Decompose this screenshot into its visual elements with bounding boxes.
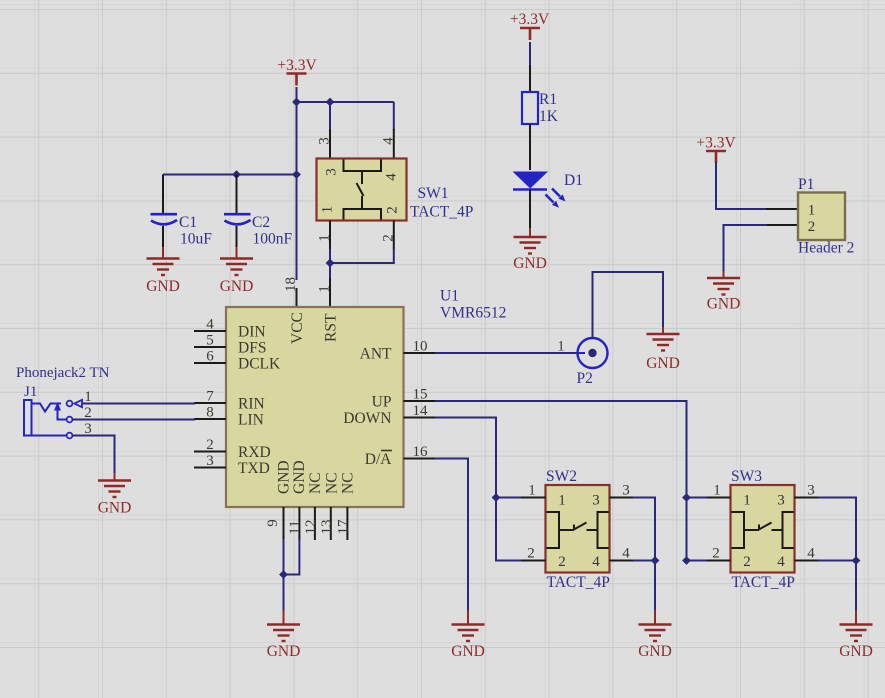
svg-text:7: 7 xyxy=(206,389,214,405)
pin U1.15 UP xyxy=(404,400,437,402)
svg-text:13: 13 xyxy=(319,520,335,535)
svg-text:TACT_4P: TACT_4P xyxy=(410,204,473,221)
svg-text:RST: RST xyxy=(323,313,340,342)
svg-text:10: 10 xyxy=(413,339,428,355)
svg-text:SW2: SW2 xyxy=(546,468,577,485)
junction at SW3 pin4 xyxy=(852,556,861,565)
svg-text:GND: GND xyxy=(98,500,132,517)
svg-text:GND: GND xyxy=(220,278,254,295)
pin U1.4 DIN xyxy=(194,330,226,332)
pin SW3.4 xyxy=(795,560,820,562)
wire GND stub (J1) xyxy=(114,473,116,481)
svg-text:6: 6 xyxy=(206,349,214,365)
svg-text:3: 3 xyxy=(622,483,630,499)
wire capacitor branch xyxy=(163,174,297,176)
svg-text:1: 1 xyxy=(743,493,751,509)
pin R1 top xyxy=(529,65,531,92)
switch SW2 TACT_4P xyxy=(546,468,610,591)
wire U1 GND pin11 jog xyxy=(284,539,300,575)
wire GND stub (D/A) xyxy=(467,610,469,625)
pin R1 bottom / D1 anode xyxy=(529,124,531,170)
svg-text:C2: C2 xyxy=(252,214,270,231)
svg-text:1K: 1K xyxy=(539,108,559,125)
pin U1.2 RXD xyxy=(194,451,226,453)
svg-text:4: 4 xyxy=(592,554,600,570)
capacitor C2 xyxy=(224,175,293,259)
svg-text:GND: GND xyxy=(707,296,741,313)
wire +3.3V stub to node xyxy=(296,87,298,102)
connector J1 Phonejack2 TN xyxy=(16,365,110,438)
pin U1.13 NC xyxy=(330,507,332,540)
svg-text:3: 3 xyxy=(807,483,815,499)
svg-text:NC: NC xyxy=(323,472,340,494)
svg-text:15: 15 xyxy=(413,387,428,403)
wire VCC vertical to U1 xyxy=(296,102,298,280)
wire P2 shield to ground xyxy=(593,272,664,338)
ground (SW2) xyxy=(638,625,672,661)
svg-text:DCLK: DCLK xyxy=(238,356,281,373)
junction at +3.3V node xyxy=(292,98,301,107)
svg-text:P2: P2 xyxy=(577,370,593,387)
svg-text:GND: GND xyxy=(646,355,680,372)
pin SW1.1 xyxy=(329,221,331,251)
svg-text:1: 1 xyxy=(558,493,566,509)
svg-text:VMR6512: VMR6512 xyxy=(440,305,506,322)
svg-text:Header 2: Header 2 xyxy=(798,240,854,257)
svg-text:3: 3 xyxy=(324,168,340,176)
ground (P2) xyxy=(646,334,680,372)
svg-text:4: 4 xyxy=(384,173,400,181)
svg-text:2: 2 xyxy=(384,206,400,214)
wire RST drop xyxy=(329,263,331,280)
svg-text:TXD: TXD xyxy=(238,460,270,477)
pin P1.2 xyxy=(766,224,798,226)
svg-text:GND: GND xyxy=(146,278,180,295)
pin SW3.3 xyxy=(795,497,820,499)
pin U1.18 VCC xyxy=(296,288,298,307)
power +3.3V (R1 branch) xyxy=(510,11,550,40)
pin U1.17 NC xyxy=(346,507,348,540)
junction at SW1 pin1 / RST xyxy=(326,259,335,268)
ground (SW3) xyxy=(839,625,873,661)
pin U1.3 TXD xyxy=(194,467,226,469)
svg-text:1: 1 xyxy=(320,206,336,214)
pin U1.11 GND xyxy=(298,507,300,540)
switch SW1 TACT_4P xyxy=(317,159,474,221)
svg-text:3: 3 xyxy=(592,493,600,509)
svg-text:2: 2 xyxy=(743,554,751,570)
pin U1.14 DOWN xyxy=(404,417,437,419)
wire SW1 pin4 drop xyxy=(393,102,395,130)
svg-text:RXD: RXD xyxy=(238,444,271,461)
svg-text:3: 3 xyxy=(777,493,785,509)
ground (D/A) xyxy=(451,625,485,661)
svg-text:1: 1 xyxy=(557,339,565,355)
svg-text:SW1: SW1 xyxy=(418,185,449,202)
svg-text:Phonejack2 TN: Phonejack2 TN xyxy=(16,365,110,381)
svg-text:9: 9 xyxy=(265,519,281,527)
svg-text:GND: GND xyxy=(451,643,485,660)
svg-text:SW3: SW3 xyxy=(731,468,762,485)
pin SW2.2 xyxy=(521,560,546,562)
svg-text:NC: NC xyxy=(339,472,356,494)
wire SW3 pins 3-4 to ground xyxy=(818,498,856,611)
wire +3.3V to R1 xyxy=(529,42,531,66)
svg-text:GND: GND xyxy=(513,255,547,272)
pin U1.10 ANT xyxy=(404,352,437,354)
capacitor C1 xyxy=(151,175,213,259)
wire D/A to ground xyxy=(435,459,468,611)
wire P1.2 to ground xyxy=(724,225,768,271)
pin U1.6 DCLK xyxy=(194,362,226,364)
pin SW2.3 xyxy=(610,497,635,499)
svg-text:C1: C1 xyxy=(179,214,197,231)
wire SW2 pin4 branch xyxy=(633,560,655,562)
junction at SW3 pin1 xyxy=(682,493,691,502)
svg-text:16: 16 xyxy=(413,444,429,460)
svg-text:1: 1 xyxy=(808,203,816,219)
svg-text:2: 2 xyxy=(527,546,535,562)
svg-text:12: 12 xyxy=(303,520,319,535)
wire SW3 pin4 branch xyxy=(818,560,856,562)
svg-text:UP: UP xyxy=(372,394,392,411)
pin U1.12 NC xyxy=(314,507,316,540)
ground (C2) xyxy=(220,259,254,296)
svg-text:2: 2 xyxy=(380,234,396,242)
pin SW1.3 xyxy=(329,129,331,159)
svg-text:100nF: 100nF xyxy=(253,231,293,248)
wire GND stub (P2) xyxy=(662,327,664,334)
svg-text:GND: GND xyxy=(267,643,301,660)
svg-text:2: 2 xyxy=(808,219,816,235)
svg-text:RIN: RIN xyxy=(238,396,265,413)
svg-text:8: 8 xyxy=(206,405,214,421)
wire GND stub (U1) xyxy=(283,610,285,625)
svg-text:11: 11 xyxy=(287,520,303,534)
wire J1.1 to RIN xyxy=(83,403,196,405)
pin SW3.1 xyxy=(706,497,731,499)
svg-text:1: 1 xyxy=(528,483,536,499)
wire U1 GND pin9 down xyxy=(283,539,285,610)
wire GND stub (P1) xyxy=(723,271,725,278)
wire J1.2 to LIN xyxy=(73,419,196,421)
svg-text:+3.3V: +3.3V xyxy=(277,57,317,74)
svg-text:18: 18 xyxy=(283,277,299,292)
pin U1.5 DFS xyxy=(194,346,226,348)
junction at C2 xyxy=(232,170,241,179)
svg-text:TACT_4P: TACT_4P xyxy=(732,574,795,591)
svg-text:+3.3V: +3.3V xyxy=(510,11,550,28)
svg-text:GND: GND xyxy=(839,643,873,660)
svg-text:ANT: ANT xyxy=(360,346,392,363)
svg-text:DIN: DIN xyxy=(238,324,266,341)
svg-text:R1: R1 xyxy=(539,91,557,108)
wire ANT to P2 xyxy=(435,352,578,354)
svg-text:GND: GND xyxy=(291,460,308,494)
pin U1.8 LIN xyxy=(194,418,226,420)
switch SW3 TACT_4P xyxy=(731,468,795,591)
svg-text:1: 1 xyxy=(317,234,333,242)
svg-text:3: 3 xyxy=(206,453,214,469)
pin U1.7 RIN xyxy=(194,402,226,404)
svg-text:2: 2 xyxy=(558,554,566,570)
svg-text:DFS: DFS xyxy=(238,340,266,357)
IC U1 VMR6512 xyxy=(226,288,506,508)
ground (D1) xyxy=(513,237,547,272)
wire J1.3 to ground xyxy=(73,436,115,474)
junction at capacitor branch xyxy=(292,170,301,179)
svg-text:TACT_4P: TACT_4P xyxy=(547,574,610,591)
svg-text:U1: U1 xyxy=(440,288,459,305)
pin SW3.2 xyxy=(706,560,731,562)
svg-text:4: 4 xyxy=(622,546,630,562)
svg-text:GND: GND xyxy=(638,643,672,660)
pin D1 cathode xyxy=(529,189,531,228)
svg-text:4: 4 xyxy=(777,554,785,570)
pin SW2.4 xyxy=(610,560,635,562)
svg-text:4: 4 xyxy=(807,546,815,562)
svg-text:LIN: LIN xyxy=(238,412,264,429)
pin U1.1 RST xyxy=(329,278,331,307)
pin P1.1 xyxy=(766,208,798,210)
svg-text:DOWN: DOWN xyxy=(343,410,391,427)
LED D1 xyxy=(513,172,583,208)
wire SW3 pin1 branch xyxy=(687,497,708,499)
junction at GND pins xyxy=(279,570,288,579)
power +3.3V (P1 branch) xyxy=(696,135,736,164)
pin U1.16 D/A xyxy=(404,458,437,460)
wire DOWN net to SW2 xyxy=(435,418,522,561)
wire SW2 pin1 branch xyxy=(496,497,522,499)
svg-text:P1: P1 xyxy=(798,176,814,193)
svg-text:5: 5 xyxy=(206,333,214,349)
ground (J1) xyxy=(98,481,132,517)
svg-text:2: 2 xyxy=(206,437,214,453)
svg-text:2: 2 xyxy=(712,546,720,562)
pin SW1.4 xyxy=(393,129,395,159)
svg-text:GND: GND xyxy=(275,460,292,494)
svg-text:+3.3V: +3.3V xyxy=(696,135,736,152)
junction at SW1 pin3 branch xyxy=(326,98,335,107)
wire SW1 pins 1-2 tie xyxy=(330,249,394,263)
wire GND stub (SW3) xyxy=(855,610,857,625)
wire GND stub (D1) xyxy=(529,228,531,237)
wire SW1 pin3 drop xyxy=(329,102,331,130)
svg-text:NC: NC xyxy=(307,472,324,494)
svg-text:1: 1 xyxy=(713,483,721,499)
svg-text:D1: D1 xyxy=(564,172,583,189)
pin SW2.1 xyxy=(521,497,546,499)
resistor R1 1K xyxy=(522,91,559,125)
wire UP net to SW3 xyxy=(435,401,687,561)
junction at SW2 pin1 xyxy=(492,493,501,502)
wire SW3 pin2 branch xyxy=(687,560,708,562)
svg-text:4: 4 xyxy=(380,137,396,145)
pin U1.9 GND xyxy=(283,507,285,540)
svg-text:D/A: D/A xyxy=(365,451,393,468)
pin SW1.2 xyxy=(393,221,395,251)
ground (P1) xyxy=(707,278,741,313)
svg-text:J1: J1 xyxy=(24,384,37,400)
connector P2 xyxy=(577,338,608,387)
ground (U1) xyxy=(267,625,301,661)
connector P1 Header 2 xyxy=(798,176,854,257)
power +3.3V (VCC rail, center) xyxy=(277,57,317,86)
wire +3.3V to P1.1 xyxy=(716,162,767,209)
ground (C1) xyxy=(146,259,180,296)
svg-text:14: 14 xyxy=(413,403,429,419)
wire GND stub (SW2) xyxy=(654,610,656,625)
svg-text:1: 1 xyxy=(317,285,333,293)
wire SW2 pins 3-4 to ground xyxy=(633,498,655,611)
svg-text:10uF: 10uF xyxy=(180,231,212,248)
svg-text:VCC: VCC xyxy=(289,312,306,344)
junction at SW3 pin2 xyxy=(682,556,691,565)
svg-text:17: 17 xyxy=(335,519,351,535)
svg-text:3: 3 xyxy=(317,137,333,145)
junction at SW2 pin4 xyxy=(651,556,660,565)
wire top rail to SW1 pin4 column xyxy=(297,101,394,103)
svg-text:4: 4 xyxy=(206,317,214,333)
